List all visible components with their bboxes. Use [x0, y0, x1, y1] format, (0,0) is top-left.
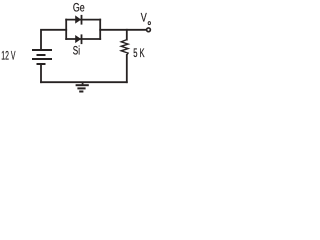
- wire output to terminal: [100, 29, 146, 31]
- wire bottom branch (Si): [66, 38, 100, 40]
- svg-text:Ge: Ge: [73, 3, 85, 15]
- svg-text:Si: Si: [73, 46, 80, 58]
- ground: [76, 82, 89, 91]
- wire resistor bottom lead: [126, 55, 128, 82]
- terminal Vo open circle: [147, 28, 151, 32]
- node diode-block right bar: [99, 20, 101, 39]
- resistor R1 5K zigzag: [121, 40, 128, 55]
- label Vo subscript o: [148, 22, 150, 25]
- diode D2 Si: [76, 34, 82, 44]
- battery B1 12V plates: [32, 50, 52, 64]
- svg-text:V: V: [141, 13, 147, 25]
- diode D1 Ge: [76, 15, 82, 25]
- svg-text:12 V: 12 V: [1, 51, 15, 63]
- wire bottom rail: [41, 81, 127, 83]
- wire top branch (Ge): [66, 19, 100, 21]
- node diode-block left bar: [65, 20, 67, 39]
- svg-text:5 K: 5 K: [133, 48, 145, 60]
- wire battery top to top-left corner: [41, 30, 66, 50]
- wire battery bottom: [40, 64, 42, 82]
- wire resistor top lead: [126, 30, 128, 40]
